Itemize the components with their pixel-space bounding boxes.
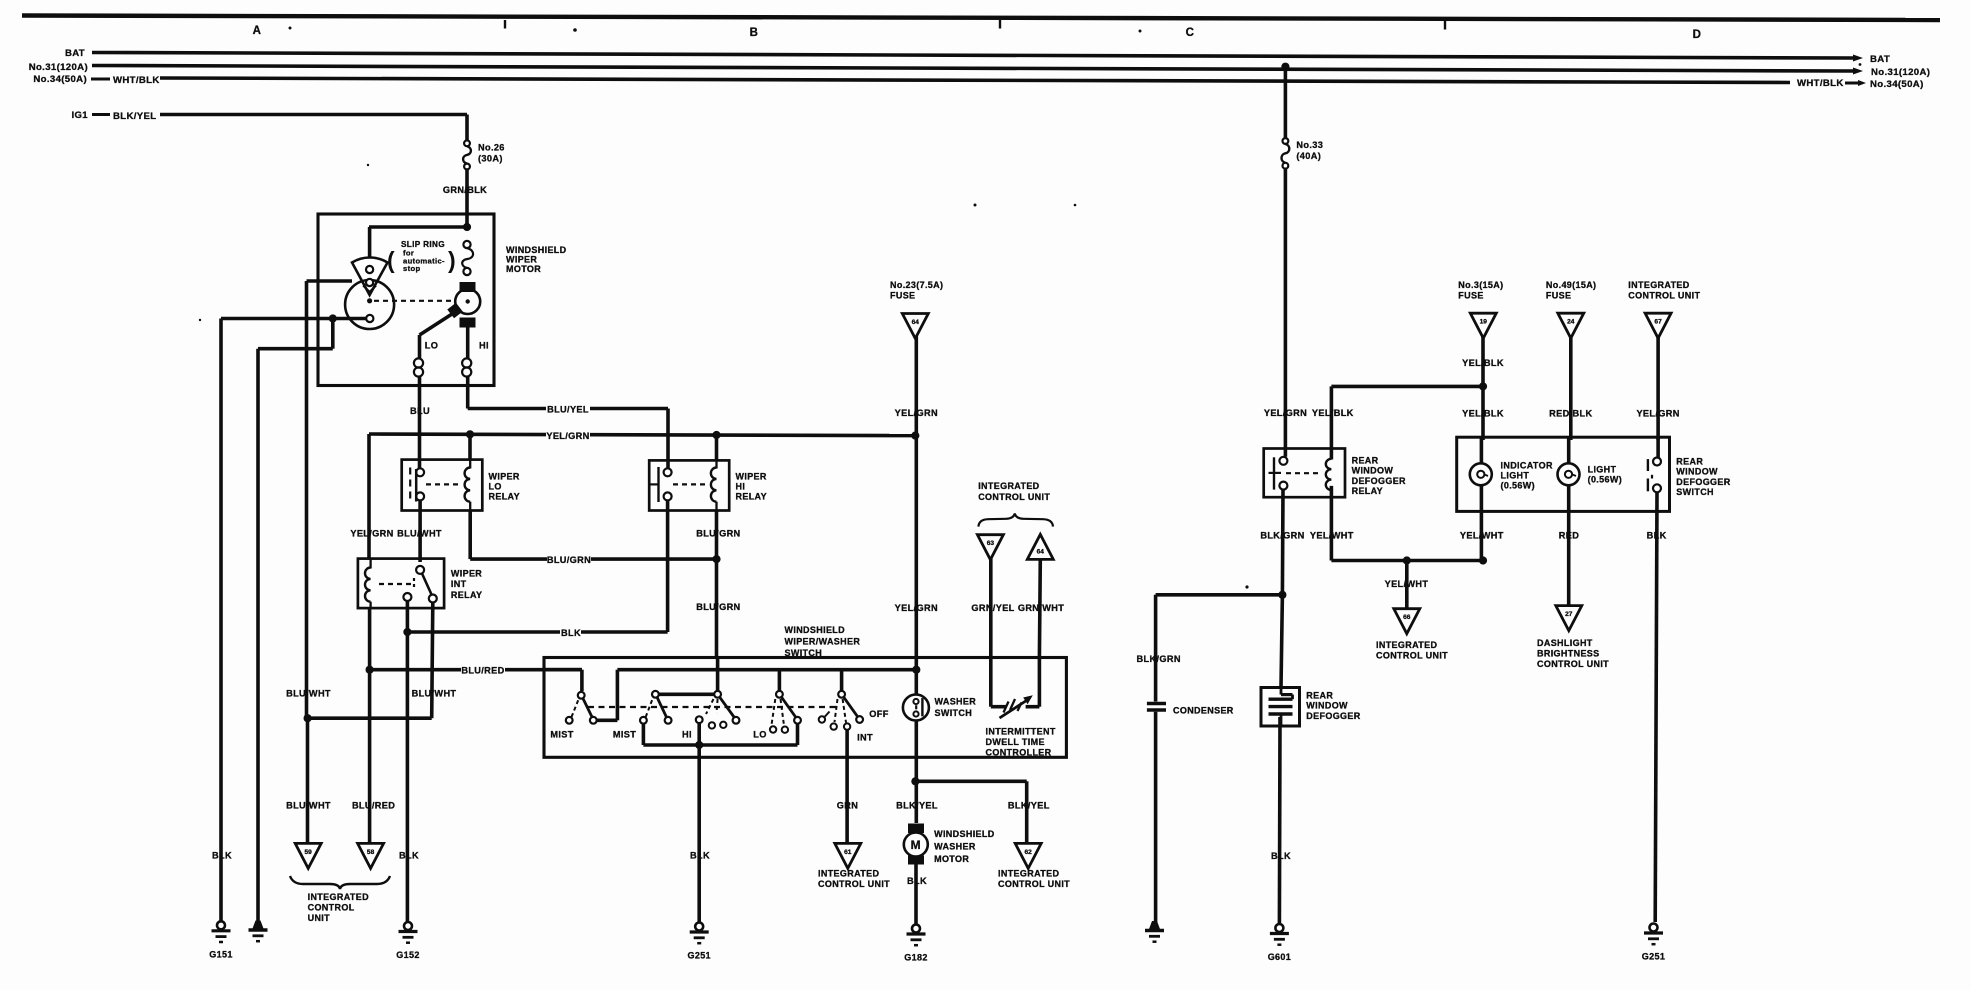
svg-text:HI: HI (736, 482, 746, 492)
wire washer switch feed YEL/GRN (914, 337, 918, 695)
relay LO dashed link (426, 483, 462, 485)
switch LO arm (782, 697, 796, 717)
wire GRN/WHT into box (1038, 658, 1042, 707)
svg-text:WINDOW: WINDOW (1352, 466, 1394, 476)
wire YEL/WHT drop to ICU (1405, 561, 1409, 609)
fuse No.26 (30A) (464, 140, 470, 146)
svg-text:(30A): (30A) (478, 153, 503, 163)
svg-text:): ) (448, 247, 456, 273)
slip ring contact circle lower (HI feed) (463, 268, 470, 275)
wire YEL/GRN drop D (1656, 336, 1660, 440)
svg-text:OFF: OFF (869, 709, 888, 719)
node junction BLK (403, 628, 411, 636)
svg-text:DWELL TIME: DWELL TIME (986, 737, 1045, 747)
wire slip ring left (BLU/WHT) (307, 279, 353, 283)
switch INT contact tail (819, 716, 825, 722)
relay HI coil (711, 468, 717, 502)
ground G182 (912, 925, 920, 933)
motor center dot (466, 299, 470, 303)
wire BLU vertical (418, 386, 422, 469)
slip ring contact circle upper (HI feed) (463, 241, 470, 248)
connector fuse No.49 triangle (1558, 313, 1584, 338)
svg-text:WHT/BLK: WHT/BLK (113, 75, 160, 86)
dwell controller slashes (1004, 702, 1009, 713)
svg-text:YEL/WHT: YEL/WHT (1460, 531, 1504, 541)
wire OFF/INT switch feed (840, 670, 844, 691)
svg-text:No.34(50A): No.34(50A) (33, 74, 87, 85)
switch MIST1 dashed linkage (572, 700, 579, 718)
svg-text:G152: G152 (396, 950, 419, 960)
wire BLU/RED into box (544, 668, 582, 672)
svg-text:INT: INT (857, 733, 873, 743)
wire slip ring bottom to left (221, 317, 367, 321)
wire HI contact down (666, 500, 670, 632)
wire GRN/YEL drop (989, 557, 993, 657)
relay INT coil stub bottom (369, 602, 371, 608)
section tick A-B (504, 20, 506, 29)
switch HI fan dashes (706, 699, 714, 714)
wire LO brush diagonal (420, 314, 453, 335)
relay INT dashed link (379, 583, 412, 585)
scan speck (289, 27, 292, 30)
svg-text:No.34(50A): No.34(50A) (1870, 79, 1924, 90)
svg-text:66: 66 (1403, 614, 1411, 621)
wire HI lead (466, 328, 470, 359)
svg-text:WIPER: WIPER (451, 569, 482, 579)
svg-text:REAR: REAR (1352, 456, 1379, 466)
dwell controller right foot (1026, 705, 1040, 709)
wire BLU/WHT vertical down (305, 281, 309, 718)
relay LO contact lower (416, 492, 424, 500)
wire to G151 vertical (219, 319, 223, 923)
svg-text:stop: stop (403, 264, 420, 273)
washer switch circle (903, 695, 929, 721)
svg-text:RELAY: RELAY (736, 492, 767, 502)
svg-text:WASHER: WASHER (934, 841, 976, 851)
svg-text:58: 58 (367, 849, 375, 856)
chassis ground (condenser) (1149, 921, 1160, 929)
washer motor M2 circle (904, 833, 928, 857)
svg-text:G151: G151 (209, 949, 232, 959)
wire defogger switch feed (1656, 437, 1660, 458)
svg-text:BLK: BLK (399, 851, 419, 861)
switch OFF top contact (838, 691, 845, 698)
node junction GRN/BLK inside box (463, 223, 471, 231)
wire BLU/YEL horizontal (468, 407, 668, 411)
ground G601 (1275, 924, 1283, 932)
svg-text:YEL/BLK: YEL/BLK (1462, 358, 1504, 368)
switch HI left contact (696, 716, 703, 723)
wire lower-left horizontal (258, 347, 333, 351)
svg-text:WIPER/WASHER: WIPER/WASHER (785, 636, 861, 646)
node junction YEL/BLK (1479, 382, 1487, 390)
wire BLU/YEL drop to HI relay (666, 409, 670, 469)
svg-text:INTEGRATED: INTEGRATED (818, 869, 879, 879)
switch LO fan dashes (772, 699, 776, 725)
wire INT coil stub top (369, 559, 371, 569)
switch OFF moving contact (856, 716, 863, 723)
svg-text:CONTROL UNIT: CONTROL UNIT (978, 492, 1050, 502)
motor M1 armature circle (455, 289, 480, 314)
svg-text:REAR: REAR (1676, 457, 1703, 467)
svg-text:BLK/YEL: BLK/YEL (896, 801, 938, 811)
svg-text:A: A (253, 25, 262, 37)
svg-text:BLK: BLK (1647, 531, 1667, 541)
svg-text:CONTROL: CONTROL (308, 903, 355, 913)
connector 66 integrated control unit (1394, 609, 1420, 634)
relay INT contact bottom-left (403, 593, 411, 601)
wire MIST1 feed drop (580, 670, 584, 691)
wire HI to BLU/YEL corner (466, 386, 470, 409)
defogger relay coil (1326, 459, 1332, 490)
wire defogger relay coil feed YEL/BLK (1330, 386, 1334, 459)
svg-text:61: 61 (844, 849, 852, 856)
slip ring bottom contact (366, 315, 373, 322)
relay LO armature (dashed) (409, 468, 411, 503)
wire LO coil to box bottom (418, 377, 422, 386)
svg-text:DEFOGGER: DEFOGGER (1352, 476, 1406, 486)
wire BLU/RED label (461, 666, 505, 677)
wire YEL/GRN left drop (367, 434, 371, 559)
svg-text:BRIGHTNESS: BRIGHTNESS (1537, 649, 1600, 659)
svg-text:RELAY: RELAY (489, 492, 520, 502)
wire INT bottom-right down (432, 603, 433, 719)
wire YEL/GRN below fuse 33 (1284, 169, 1288, 457)
dwell controller rheostat arrow (1000, 701, 1027, 719)
wire defogger switch out BLK (1655, 492, 1657, 922)
wire MIST1 out (597, 718, 618, 722)
motor brush LO (angled) (447, 303, 462, 318)
wire bottom bus (643, 743, 797, 747)
rear window defogger box (1261, 688, 1300, 727)
bus wire WHT/BLK No.34(50A) (160, 78, 1790, 83)
svg-text:BLU/WHT: BLU/WHT (286, 689, 331, 699)
defogger relay contact lower (1279, 482, 1287, 490)
defogger relay bar (1273, 457, 1275, 489)
wire inner bus horizontal (617, 668, 916, 672)
slip ring wedge contact lower (366, 279, 373, 286)
wire condenser branch drop (1154, 595, 1158, 702)
svg-text:HI: HI (479, 341, 489, 351)
svg-text:INDICATOR: INDICATOR (1501, 461, 1553, 471)
washer switch contact top (913, 699, 918, 704)
svg-text:LO: LO (425, 341, 438, 351)
chassis ground (filled) (253, 921, 264, 929)
svg-text:G601: G601 (1268, 952, 1291, 962)
wire indicator light feed (1480, 437, 1484, 463)
switch LO top contact (776, 691, 783, 698)
wire defogger BLK (1278, 717, 1282, 925)
svg-text:DEFOGGER: DEFOGGER (1306, 711, 1360, 721)
connector 27 triangle (1556, 606, 1582, 631)
node junction YEL/WHT (1479, 556, 1487, 564)
wire GRN/WHT drop (1038, 559, 1043, 657)
wire light feed (1567, 437, 1571, 463)
wire LO relay coil feed (468, 434, 472, 460)
svg-text:No.49(15A): No.49(15A) (1546, 280, 1597, 290)
svg-text:WASHER: WASHER (935, 697, 977, 707)
svg-text:INTEGRATED: INTEGRATED (1376, 640, 1437, 650)
switch HI top contact (714, 691, 721, 698)
svg-text:CONDENSER: CONDENSER (1173, 706, 1234, 716)
svg-text:BLU/RED: BLU/RED (352, 801, 395, 811)
svg-text:BAT: BAT (65, 48, 85, 59)
node junction BLK/YEL (911, 777, 919, 785)
svg-text:GRN/WHT: GRN/WHT (1018, 603, 1064, 613)
svg-text:WINDOW: WINDOW (1676, 467, 1718, 477)
slip ring wedge (352, 257, 388, 295)
bus No.34 dash right (1845, 82, 1858, 85)
svg-text:D: D (1693, 29, 1702, 41)
svg-text:INTEGRATED: INTEGRATED (1628, 280, 1689, 290)
relay HI contact bar (657, 467, 659, 502)
svg-text:YEL/GRN: YEL/GRN (895, 408, 938, 418)
svg-text:LO: LO (753, 730, 766, 740)
svg-text:CONTROL UNIT: CONTROL UNIT (1376, 651, 1448, 661)
section tick C-D (1444, 21, 1446, 30)
wire junction drop (331, 319, 335, 349)
washer motor brush top (908, 824, 924, 834)
ground G251 (switch) (695, 923, 703, 931)
node junction BLU/GRN (712, 555, 720, 563)
svg-text:BLU/GRN: BLU/GRN (696, 602, 740, 612)
switch MIST2 arm (657, 698, 666, 717)
svg-text:MOTOR: MOTOR (934, 854, 969, 864)
slip ring center pivot (367, 298, 372, 303)
svg-text:BLK: BLK (1271, 851, 1291, 861)
svg-text:BLK/YEL: BLK/YEL (113, 111, 157, 122)
brace integrated control unit (290, 876, 390, 889)
switch LO moving contact (794, 717, 801, 724)
relay INT coil (365, 568, 371, 602)
svg-text:No.26: No.26 (478, 142, 505, 152)
ground G251 right (1650, 924, 1658, 932)
svg-text:WIPER: WIPER (489, 472, 520, 482)
brace integrated control unit top (978, 514, 1053, 527)
svg-text:IG1: IG1 (71, 110, 88, 121)
indicator light bulb (1470, 463, 1492, 485)
wire YEL/BLK drop (1481, 336, 1485, 440)
svg-text:LIGHT: LIGHT (1588, 465, 1617, 475)
wire indicator light out (1480, 485, 1484, 560)
node junction BLU/RED (366, 666, 374, 674)
svg-text:LO: LO (489, 482, 502, 492)
coil HI winding (462, 358, 471, 367)
svg-text:GRN/BLK: GRN/BLK (443, 185, 487, 195)
svg-text:FUSE: FUSE (1458, 290, 1483, 300)
svg-text:67: 67 (1654, 319, 1662, 326)
svg-text:MIST: MIST (550, 730, 573, 740)
slip ring wedge contact upper (366, 266, 373, 273)
svg-text:C: C (1186, 27, 1195, 39)
wire HI relay coil feed (715, 435, 719, 460)
wire INT bottom-left to BLK junction (406, 601, 410, 922)
svg-text:62: 62 (1025, 849, 1033, 856)
connector 59 to integrated control unit (295, 843, 321, 868)
svg-text:RED: RED (1559, 531, 1579, 541)
wire YEL/GRN label (546, 431, 590, 442)
relay HI contact lower (664, 492, 672, 500)
svg-text:No.3(15A): No.3(15A) (1458, 280, 1503, 290)
switch INT fan dashes (835, 699, 838, 722)
relay HI contact upper (664, 468, 672, 476)
wire LO switch feed (778, 670, 782, 691)
wire YEL/BLK top link (1331, 385, 1483, 389)
svg-text:BLU/WHT: BLU/WHT (286, 801, 331, 811)
gang dashed line (588, 706, 838, 708)
connector 58 to integrated control unit (358, 843, 384, 868)
svg-text:59: 59 (305, 849, 313, 856)
svg-text:SWITCH: SWITCH (1676, 487, 1714, 497)
wire LO moving contact drop (796, 724, 800, 745)
svg-text:BAT: BAT (1870, 54, 1890, 65)
svg-text:CONTROL UNIT: CONTROL UNIT (998, 879, 1070, 889)
svg-text:YEL/GRN: YEL/GRN (350, 529, 393, 539)
switch INT fan contact a (831, 723, 837, 729)
wire HI coil to box bottom (466, 377, 470, 386)
svg-text:BLK/GRN: BLK/GRN (1137, 654, 1181, 664)
wire IG1 drop to fuse No.26 (465, 115, 469, 141)
wire washer switch down (914, 721, 918, 824)
defogger switch contact top (1653, 458, 1661, 466)
wire condenser branch horizontal (1156, 593, 1283, 597)
svg-text:64: 64 (1037, 548, 1045, 555)
switch MIST1 top contact (578, 692, 585, 699)
light bulb (1558, 463, 1580, 485)
svg-text:(0.56W): (0.56W) (1588, 475, 1622, 485)
relay HI dashed link (673, 483, 708, 485)
bus No.34 dash left (91, 78, 110, 81)
svg-text:BLK: BLK (690, 851, 710, 861)
switch HI moving contact (733, 717, 740, 724)
connector fuse No.23 triangle (902, 314, 928, 339)
lamp box (1457, 437, 1670, 511)
node junction YEL/WHT branch (1403, 556, 1411, 564)
svg-text:BLK: BLK (212, 851, 232, 861)
wire BLU/RED horizontal (370, 668, 582, 672)
defogger relay dashed link (1286, 472, 1322, 474)
connector 67 triangle (1645, 313, 1671, 338)
relay LO contact upper (416, 468, 424, 476)
switch HI fan contact b (720, 722, 726, 728)
svg-text:CONTROL UNIT: CONTROL UNIT (1537, 659, 1609, 669)
wire BLK horizontal (407, 630, 667, 634)
relay rear window defogger box (1264, 449, 1345, 498)
wire HI left contact to ground wire (697, 723, 701, 922)
svg-text:(0.56W): (0.56W) (1501, 481, 1535, 491)
wire YEL/GRN main drop (1284, 67, 1288, 139)
svg-text:GRN: GRN (837, 801, 858, 811)
wire BLU/GRN horizontal (470, 557, 716, 561)
defogger relay contact upper (1279, 457, 1287, 465)
wire HI coil stub top (715, 460, 717, 468)
svg-text:WINDOW: WINDOW (1306, 701, 1348, 711)
svg-text:BLU/YEL: BLU/YEL (547, 405, 589, 415)
switch HI arm (720, 697, 734, 717)
motor brush bottom (460, 318, 476, 328)
node junction bottom bus / BLK (695, 741, 703, 749)
top border rule (22, 16, 1940, 21)
wire LO coil down (468, 511, 472, 560)
switch MIST1 left contact (566, 717, 573, 724)
svg-text:YEL/GRN: YEL/GRN (1264, 408, 1307, 418)
wire BLK/YEL branch drop (1025, 781, 1029, 842)
dwell controller left foot (989, 703, 993, 707)
svg-text:(40A): (40A) (1296, 151, 1321, 161)
washer motor brush bottom (908, 856, 924, 865)
switch HI fan contact a (709, 722, 715, 728)
windshield wiper motor box (318, 214, 494, 386)
relay LO coil stub bottom (469, 502, 471, 511)
wire defogger relay contact down (1281, 490, 1285, 595)
node junction No.31 tap (1281, 63, 1289, 71)
switch MIST2 left contact (640, 717, 647, 724)
wire HI switch feed from above (716, 658, 720, 691)
defogger switch contact bottom (1653, 484, 1661, 492)
svg-text:YEL/GRN: YEL/GRN (1636, 409, 1679, 419)
svg-text:YEL/WHT: YEL/WHT (1385, 579, 1429, 589)
connector 62 integrated control unit (1015, 843, 1041, 868)
wire BLK label (560, 628, 581, 639)
wire GRN/YEL into box (989, 658, 993, 703)
slip ring S-link (462, 248, 473, 268)
svg-text:GRN/YEL: GRN/YEL (971, 603, 1014, 613)
fuse No.33 (40A) (1283, 138, 1289, 144)
svg-text:WIPER: WIPER (736, 472, 767, 482)
relay wiper INT box (358, 559, 444, 609)
wire inner top horizontal (369, 225, 467, 229)
connector fuse No.3 triangle (1470, 313, 1496, 338)
wire BLU/WHT to ICU 59 (306, 718, 310, 842)
svg-text:No.31(120A): No.31(120A) (1871, 67, 1930, 78)
wire to chassis ground vertical (256, 349, 260, 922)
svg-text:YEL/GRN: YEL/GRN (546, 431, 589, 441)
wire RED/BLK drop (1569, 336, 1573, 440)
switch MIST1 moving contact (590, 717, 597, 724)
svg-text:27: 27 (1565, 611, 1573, 618)
svg-text:64: 64 (912, 319, 920, 326)
svg-text:FUSE: FUSE (1546, 290, 1571, 300)
bus wire No.31(120A) (92, 66, 1853, 72)
wire BLK/YEL branch horizontal (915, 779, 1026, 783)
svg-text:No.33: No.33 (1296, 140, 1323, 150)
relay INT contact top (416, 566, 424, 574)
svg-text:MIST: MIST (613, 730, 636, 740)
relay LO coil (465, 468, 471, 502)
section tick B-C (999, 20, 1001, 29)
svg-text:No.23(7.5A): No.23(7.5A) (890, 280, 943, 290)
svg-text:BLK/YEL: BLK/YEL (1008, 801, 1050, 811)
wire defogger feed (1281, 595, 1282, 687)
svg-text:INTERMITTENT: INTERMITTENT (986, 727, 1056, 737)
relay INT contact bottom-right (429, 595, 437, 603)
slip ring wedge chevron (363, 286, 376, 293)
svg-text:RELAY: RELAY (451, 590, 482, 600)
svg-text:24: 24 (1567, 319, 1575, 326)
switch MIST2 top contact (652, 691, 659, 698)
coil LO winding (414, 358, 423, 367)
svg-text:BLU/RED: BLU/RED (461, 666, 504, 676)
relay HI coil stub bottom (715, 502, 717, 511)
svg-text:G251: G251 (687, 951, 710, 961)
svg-text:BLU/GRN: BLU/GRN (696, 529, 740, 539)
wire washer motor BLK (914, 865, 918, 926)
wire light out RED (1567, 485, 1571, 605)
switch LO fan contact b (782, 727, 788, 733)
svg-text:DASHLIGHT: DASHLIGHT (1537, 638, 1593, 648)
svg-text:YEL/GRN: YEL/GRN (895, 603, 938, 613)
wire defogger relay coil down (1330, 486, 1334, 561)
